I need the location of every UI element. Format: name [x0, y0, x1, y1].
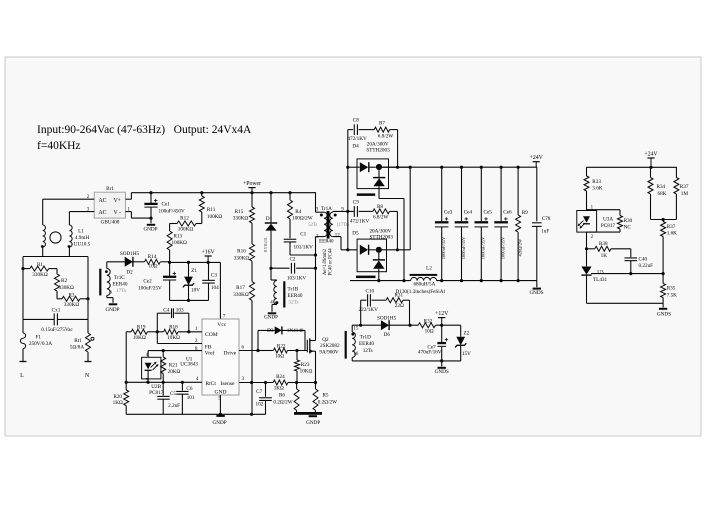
- svg-text:R15: R15: [235, 209, 244, 215]
- svg-text:2SK2082: 2SK2082: [320, 343, 340, 349]
- svg-text:222/1KV: 222/1KV: [359, 307, 379, 313]
- svg-text:16: 16: [353, 352, 358, 357]
- svg-text:D2: D2: [126, 270, 133, 276]
- svg-text:C2: C2: [289, 257, 295, 263]
- svg-text:R35: R35: [667, 286, 676, 292]
- svg-text:R31: R31: [394, 293, 403, 299]
- svg-text:C78: C78: [542, 216, 551, 222]
- svg-text:R32: R32: [424, 318, 433, 324]
- svg-text:R24: R24: [276, 374, 285, 380]
- svg-text:330KΩ: 330KΩ: [234, 256, 250, 262]
- svg-text:C1: C1: [300, 232, 306, 238]
- svg-text:52Ts: 52Ts: [289, 299, 299, 305]
- svg-text:15V: 15V: [462, 351, 471, 357]
- svg-text:R3: R3: [68, 292, 74, 298]
- svg-text:6.8/2W: 6.8/2W: [378, 134, 394, 140]
- svg-text:L: L: [20, 373, 24, 379]
- svg-text:Ce4: Ce4: [464, 210, 473, 216]
- svg-text:Ce3: Ce3: [444, 210, 453, 216]
- svg-text:D5: D5: [352, 230, 359, 236]
- svg-text:Cx1: Cx1: [52, 307, 61, 313]
- svg-text:1K: 1K: [601, 253, 608, 259]
- svg-text:Vcc: Vcc: [217, 322, 227, 328]
- svg-text:470uF/16V: 470uF/16V: [418, 350, 442, 356]
- svg-text:1000uF/35V: 1000uF/35V: [441, 236, 446, 259]
- svg-text:R37: R37: [667, 224, 676, 230]
- svg-text:330KΩ: 330KΩ: [233, 292, 249, 298]
- svg-text:EER40: EER40: [288, 293, 303, 299]
- svg-text:AC: AC: [99, 210, 107, 216]
- svg-text:15: 15: [353, 326, 358, 331]
- svg-text:SOD1H5: SOD1H5: [120, 251, 140, 257]
- svg-text:10KΩ: 10KΩ: [167, 335, 180, 341]
- svg-text:5Ω/8A: 5Ω/8A: [70, 345, 84, 351]
- svg-text:Tr1D: Tr1D: [360, 334, 371, 340]
- svg-text:C7: C7: [256, 389, 262, 395]
- svg-text:R37: R37: [680, 184, 689, 190]
- svg-text:Isense: Isense: [221, 381, 235, 387]
- svg-text:10Ω: 10Ω: [425, 329, 434, 335]
- svg-text:7.5K: 7.5K: [667, 292, 677, 298]
- svg-text:PC817: PC817: [601, 223, 616, 229]
- svg-text:3.6K: 3.6K: [592, 185, 602, 191]
- svg-text:C10: C10: [365, 289, 374, 295]
- svg-text:Ce1: Ce1: [162, 202, 171, 208]
- svg-text:52Ts: 52Ts: [308, 223, 317, 228]
- svg-text:9A/900V: 9A/900V: [319, 350, 339, 356]
- svg-text:AC: AC: [99, 198, 107, 204]
- svg-text:104: 104: [211, 285, 219, 291]
- svg-text:R38: R38: [599, 241, 608, 247]
- svg-text:C6: C6: [186, 386, 192, 392]
- svg-text:Vref: Vref: [205, 350, 215, 357]
- svg-text:100KΩ: 100KΩ: [178, 227, 194, 233]
- svg-text:100Ω/2W: 100Ω/2W: [292, 216, 313, 222]
- svg-text:BYR20L: BYR20L: [263, 236, 268, 252]
- svg-text:GNDP: GNDP: [264, 314, 278, 320]
- svg-text:2.2nF: 2.2nF: [168, 403, 180, 409]
- svg-text:100uF/25V: 100uF/25V: [138, 286, 162, 292]
- svg-text:472/1KV: 472/1KV: [347, 136, 367, 142]
- svg-text:R8: R8: [377, 204, 383, 210]
- svg-text:10Ω: 10Ω: [275, 354, 284, 360]
- svg-text:102: 102: [256, 402, 264, 408]
- svg-text:D3: D3: [267, 328, 274, 334]
- svg-text:R1: R1: [37, 262, 43, 268]
- svg-text:1uF: 1uF: [541, 229, 549, 235]
- svg-text:+12V: +12V: [435, 311, 449, 317]
- svg-text:U2B: U2B: [151, 384, 161, 390]
- svg-text:100uF/450V: 100uF/450V: [159, 208, 185, 214]
- svg-text:GNDP: GNDP: [143, 227, 157, 233]
- svg-text:1.6K: 1.6K: [667, 230, 677, 236]
- svg-text:COM: COM: [205, 332, 218, 338]
- svg-text:EER40: EER40: [113, 282, 128, 288]
- svg-text:103/1KV: 103/1KV: [287, 275, 307, 281]
- svg-text:R18: R18: [169, 324, 178, 330]
- svg-text:STTH2003: STTH2003: [366, 148, 390, 154]
- svg-text:C40: C40: [639, 256, 648, 262]
- svg-text:680uH/5A: 680uH/5A: [413, 282, 435, 288]
- svg-text:U3: U3: [597, 270, 604, 276]
- svg-text:Rt1: Rt1: [74, 338, 82, 344]
- svg-text:101/1KV: 101/1KV: [294, 244, 314, 250]
- svg-text:R9: R9: [522, 210, 528, 216]
- svg-text:R23: R23: [301, 362, 310, 368]
- svg-text:FB: FB: [205, 344, 212, 350]
- svg-text:U3A: U3A: [603, 217, 613, 223]
- svg-text:420Ω/2W: 420Ω/2W: [517, 238, 522, 256]
- svg-text:330KΩ: 330KΩ: [59, 285, 75, 291]
- svg-text:Input:90-264Vac (47-63Hz) Ou: Input:90-264Vac (47-63Hz) Output: 24Vx4A: [37, 124, 252, 136]
- svg-text:UC3843: UC3843: [180, 361, 198, 367]
- svg-text:20A/300V: 20A/300V: [369, 228, 391, 234]
- svg-text:R7: R7: [379, 121, 385, 127]
- svg-text:GNDS: GNDS: [529, 290, 543, 296]
- svg-text:RtCt: RtCt: [205, 381, 216, 387]
- svg-text:R12: R12: [180, 216, 189, 222]
- svg-text:R2: R2: [61, 278, 67, 284]
- svg-text:GNDS: GNDS: [435, 369, 449, 375]
- svg-text:1N4148: 1N4148: [287, 328, 304, 334]
- svg-text:R20: R20: [113, 394, 122, 400]
- svg-text:1000uF/35V: 1000uF/35V: [481, 236, 486, 259]
- svg-text:C8: C8: [353, 118, 359, 124]
- svg-text:R17: R17: [236, 285, 245, 291]
- svg-text:0.22uF: 0.22uF: [639, 263, 654, 269]
- svg-text:R22: R22: [277, 344, 286, 350]
- svg-text:NC: NC: [624, 225, 632, 231]
- svg-text:103: 103: [176, 307, 184, 313]
- svg-text:L2: L2: [426, 265, 432, 271]
- svg-text:PC40 or PC44: PC40 or PC44: [329, 248, 334, 276]
- svg-text:C5: C5: [170, 391, 176, 397]
- svg-text:330KΩ: 330KΩ: [64, 302, 80, 308]
- svg-text:N: N: [85, 373, 90, 379]
- svg-text:0.2Ω/2W: 0.2Ω/2W: [273, 399, 292, 405]
- svg-text:18V: 18V: [191, 288, 200, 294]
- svg-text:68K: 68K: [658, 191, 667, 197]
- svg-text:+24V: +24V: [644, 151, 658, 157]
- svg-text:R13: R13: [174, 233, 183, 239]
- svg-text:20KΩ: 20KΩ: [168, 369, 181, 375]
- svg-text:Z1: Z1: [191, 268, 197, 274]
- svg-text:+16V: +16V: [201, 249, 215, 255]
- svg-text:1000uF/35V: 1000uF/35V: [500, 236, 505, 259]
- svg-text:12: 12: [335, 233, 340, 238]
- svg-text:D4: D4: [352, 143, 359, 149]
- svg-text:Ce5: Ce5: [484, 210, 493, 216]
- svg-text:Br1: Br1: [106, 186, 114, 192]
- svg-text:Ce6: Ce6: [503, 210, 512, 216]
- svg-text:UU10.5: UU10.5: [74, 242, 91, 248]
- svg-text:D1: D1: [266, 216, 273, 222]
- svg-text:D6: D6: [384, 332, 391, 338]
- svg-text:1KΩ: 1KΩ: [113, 400, 123, 406]
- svg-text:EER40: EER40: [319, 239, 334, 244]
- svg-text:Tr1C: Tr1C: [114, 275, 125, 281]
- svg-text:250V/0.3A: 250V/0.3A: [29, 341, 52, 347]
- svg-text:V -: V -: [114, 210, 122, 216]
- svg-text:Tr1A: Tr1A: [321, 206, 332, 212]
- svg-text:C9: C9: [353, 200, 359, 206]
- svg-text:101: 101: [187, 395, 195, 401]
- svg-text:100KΩ: 100KΩ: [207, 214, 223, 220]
- svg-text:L1: L1: [78, 229, 84, 235]
- svg-text:EER40: EER40: [359, 341, 374, 347]
- svg-text:Z2: Z2: [464, 331, 470, 337]
- svg-text:SOD1H5: SOD1H5: [377, 316, 397, 322]
- svg-text:472/1KV: 472/1KV: [350, 218, 370, 224]
- svg-text:F1: F1: [36, 335, 42, 341]
- svg-text:GNDS: GNDS: [657, 311, 671, 317]
- svg-text:12Ts: 12Ts: [363, 348, 373, 354]
- svg-text:R21: R21: [169, 362, 178, 368]
- svg-text:R11: R11: [207, 207, 216, 213]
- svg-text:10KΩ: 10KΩ: [133, 335, 146, 341]
- svg-text:10Ω: 10Ω: [148, 264, 157, 270]
- svg-text:C3: C3: [211, 272, 217, 278]
- svg-text:330KΩ: 330KΩ: [233, 216, 249, 222]
- svg-text:6.8/2W: 6.8/2W: [373, 215, 389, 221]
- svg-text:Ae=1.09mm2: Ae=1.09mm2: [323, 248, 328, 275]
- svg-text:0.15uF/275Vac: 0.15uF/275Vac: [41, 327, 73, 333]
- svg-text:R6: R6: [279, 392, 285, 398]
- svg-text:GNDP: GNDP: [213, 420, 227, 426]
- svg-text:GNDP: GNDP: [105, 307, 119, 313]
- svg-text:330KΩ: 330KΩ: [32, 272, 48, 278]
- svg-text:PC817: PC817: [149, 390, 164, 396]
- svg-text:4.9mH: 4.9mH: [75, 235, 90, 241]
- svg-text:Drive: Drive: [224, 351, 237, 357]
- svg-text:R14: R14: [148, 254, 157, 260]
- svg-text:0.2Ω/2W: 0.2Ω/2W: [318, 399, 337, 405]
- svg-text:GND: GND: [214, 390, 226, 396]
- svg-text:R5: R5: [322, 392, 328, 398]
- svg-text:TL431: TL431: [593, 277, 608, 283]
- svg-text:Ce2: Ce2: [143, 278, 152, 284]
- svg-text:V+: V+: [114, 198, 121, 204]
- svg-text:R4: R4: [295, 209, 301, 215]
- svg-text:R19: R19: [137, 324, 146, 330]
- svg-text:22Ω: 22Ω: [395, 303, 404, 309]
- svg-text:1KΩ: 1KΩ: [274, 386, 284, 392]
- svg-text:Tr1B: Tr1B: [288, 286, 299, 292]
- svg-text:1M: 1M: [681, 191, 689, 197]
- svg-text:R33: R33: [592, 179, 601, 185]
- svg-text:100KΩ: 100KΩ: [172, 240, 188, 246]
- svg-text:GNDP: GNDP: [306, 420, 320, 426]
- svg-text:1000uF/35V: 1000uF/35V: [461, 236, 466, 259]
- svg-text:R34: R34: [657, 184, 666, 190]
- svg-text:C4: C4: [163, 307, 169, 313]
- svg-text:+24V: +24V: [530, 155, 544, 161]
- svg-text:R16: R16: [237, 249, 246, 255]
- svg-text:f=40KHz: f=40KHz: [37, 140, 81, 152]
- svg-text:R30: R30: [624, 218, 633, 224]
- svg-text:+Power: +Power: [243, 181, 261, 187]
- svg-text:10KΩ: 10KΩ: [300, 368, 313, 374]
- svg-text:STTH2003: STTH2003: [370, 235, 394, 241]
- svg-text:17Ts: 17Ts: [116, 288, 126, 294]
- svg-text:20A/300V: 20A/300V: [367, 141, 389, 147]
- svg-text:GBU408: GBU408: [101, 220, 120, 226]
